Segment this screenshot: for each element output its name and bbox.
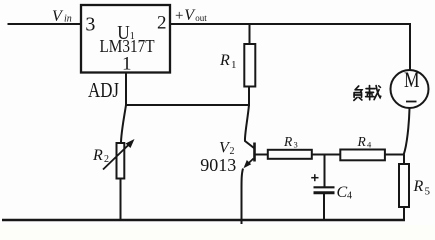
- V2 label: [219, 140, 235, 158]
- svg-text:R: R: [357, 134, 367, 149]
- wire: R5 top lead: [403, 155, 405, 164]
- svg-text:R: R: [219, 52, 230, 69]
- resistor R3 body: [268, 150, 312, 159]
- pin 2 label: [157, 13, 167, 34]
- C4 polarity plus sign: [311, 174, 318, 181]
- wire: ADJ horizontal link to R1/V2 node: [125, 104, 250, 106]
- 9013 value label: [200, 155, 236, 175]
- 负载 (load) label : character 负: [354, 86, 362, 100]
- R4 label: [357, 134, 373, 150]
- motor M (load) circle: [391, 70, 429, 108]
- transistor V2 collector lead (from R1/ADJ node): [245, 105, 254, 148]
- wire: R4 to R5/motor junction: [386, 154, 405, 156]
- svg-text:5: 5: [425, 186, 431, 198]
- svg-text:V: V: [52, 8, 64, 25]
- wire: ADJ node down to R2: [121, 105, 126, 142]
- svg-text:2: 2: [157, 13, 167, 34]
- R5 label: [413, 178, 431, 198]
- svg-text:2: 2: [104, 154, 109, 165]
- resistor R1 body: [244, 44, 255, 87]
- resistor R4 body: [340, 150, 385, 161]
- svg-text:4: 4: [367, 140, 372, 150]
- wire: +Vout rail from U1 pin 2 to right corner: [170, 23, 410, 25]
- svg-text:9013: 9013: [200, 155, 236, 175]
- node Vin label: [52, 8, 72, 25]
- pin 1 label: [122, 53, 132, 74]
- U1 reference label: [117, 22, 135, 44]
- wire: U1 pin 1 (ADJ) drop: [125, 73, 127, 106]
- variable resistor R2 arrow: [103, 139, 135, 170]
- svg-text:3: 3: [85, 14, 95, 36]
- transistor V2 base bar: [253, 143, 256, 162]
- wire: right rail drop to motor: [409, 23, 411, 70]
- C4 label: [337, 184, 353, 202]
- capacitor C4 plates: [314, 187, 335, 193]
- wire: R3 to R4 link: [313, 154, 340, 156]
- ADJ label: [88, 78, 119, 102]
- svg-text:4: 4: [347, 191, 352, 202]
- resistor R5 body: [399, 164, 409, 207]
- svg-text:C: C: [337, 184, 348, 201]
- regulator U1 LM317T body: [81, 5, 170, 73]
- motor minus terminal mark: [406, 101, 417, 103]
- svg-text:in: in: [64, 14, 72, 25]
- R3 label: [283, 134, 298, 150]
- svg-text:out: out: [195, 13, 207, 23]
- pin 3 label: [85, 14, 95, 36]
- 负载 (load) label : character 载: [366, 86, 381, 100]
- transistor V2 base lead: [256, 154, 268, 156]
- wire: input lead from left edge to U1 pin 3: [8, 23, 82, 25]
- motor M letter: [404, 67, 420, 92]
- wire: C4 top lead from R3/R4 node: [324, 155, 326, 187]
- R1 label: [219, 52, 237, 71]
- svg-text:R: R: [283, 134, 293, 149]
- svg-text:+: +: [175, 8, 183, 24]
- resistor R1 bottom lead: [248, 87, 250, 106]
- wire: R2 bottom lead: [120, 180, 122, 220]
- node +Vout label: [175, 7, 207, 24]
- svg-text:1: 1: [231, 59, 237, 71]
- wire: R5 bottom lead: [403, 208, 405, 221]
- svg-text:ADJ: ADJ: [88, 78, 119, 102]
- LM317T value label: [100, 36, 155, 56]
- svg-text:1: 1: [122, 53, 132, 74]
- resistor R1 top lead: [249, 24, 251, 43]
- wire: bottom ground rail: [2, 219, 405, 222]
- wire: C4 bottom lead: [323, 193, 325, 220]
- svg-text:3: 3: [294, 140, 298, 150]
- wire: emitter lead down to ground rail: [242, 169, 244, 225]
- svg-text:R: R: [92, 147, 103, 164]
- svg-text:M: M: [404, 67, 420, 92]
- transistor V2 emitter with arrow: [244, 159, 254, 169]
- wire: motor bottom lead down to R4/R5 junction: [404, 109, 410, 155]
- variable resistor R2 body: [117, 143, 125, 179]
- svg-text:R: R: [413, 178, 424, 195]
- R2 label: [92, 147, 109, 165]
